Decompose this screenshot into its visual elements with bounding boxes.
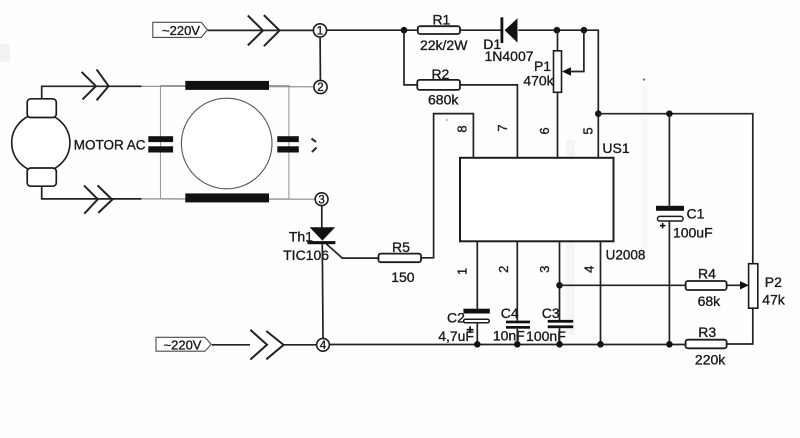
source flag ~220V bottom [156, 337, 211, 352]
potentiometer P1 470k [523, 30, 584, 92]
svg-text:R5: R5 [392, 239, 410, 255]
svg-text:47k: 47k [762, 291, 786, 307]
junction C3 rail [556, 341, 563, 348]
svg-text:2: 2 [317, 82, 323, 94]
svg-text:470k: 470k [523, 73, 554, 89]
svg-text:C1: C1 [687, 206, 705, 222]
connector chevrons motor bottom [84, 185, 112, 213]
junction C4 rail [514, 341, 521, 348]
junction pin 3 / R4 [556, 282, 563, 289]
capacitor C2 4,7uF electrolytic [438, 309, 490, 344]
svg-text:C2: C2 [447, 310, 465, 326]
wire pin3 to R4 [560, 284, 686, 286]
junction P1 wiper [581, 27, 588, 34]
wire pin 3 to C3 [559, 241, 561, 320]
pin 2 number [496, 266, 511, 273]
pin 8 number [455, 125, 470, 132]
wire node1 to R1 [326, 29, 417, 31]
svg-text:10nF: 10nF [493, 328, 525, 344]
small mark right of block [312, 139, 317, 153]
svg-text:5: 5 [580, 127, 595, 134]
resistor R2 680k [417, 66, 460, 108]
wire motor top [42, 86, 142, 99]
svg-text:4: 4 [320, 340, 327, 352]
pin 3 number [537, 266, 552, 273]
wire node1 to node2 [319, 37, 321, 81]
svg-text:MOTOR AC: MOTOR AC [74, 137, 146, 152]
svg-text:3: 3 [537, 266, 552, 273]
wire gate R5 to Th1 [326, 244, 379, 258]
wire C1 to rail [668, 221, 670, 344]
pin 5 number [580, 127, 595, 134]
wire P2 bottom to R3 [727, 308, 753, 344]
wire R2 to pin 7 [460, 85, 517, 158]
wire C2 to rail [476, 323, 478, 344]
scan streak artifact [0, 44, 648, 335]
svg-text:6: 6 [537, 127, 552, 134]
wire node3 to Th1 anode [321, 205, 323, 227]
wire D1 to corner, down to pin 5 [518, 30, 598, 158]
svg-text:P2: P2 [765, 274, 782, 290]
winding bar top [185, 81, 269, 90]
svg-text:~220V: ~220V [162, 23, 200, 38]
node 4 [317, 338, 330, 352]
pin 6 number [537, 127, 552, 134]
junction pin4 rail [597, 341, 604, 348]
winding bar bottom [185, 193, 269, 202]
thyristor Th1 TIC106 [283, 227, 335, 263]
resistor R5 150 [379, 239, 422, 285]
junction A (R2 branch) [401, 27, 408, 34]
svg-text:22k/2W: 22k/2W [420, 37, 468, 53]
svg-text:68k: 68k [698, 293, 722, 309]
svg-text:US1: US1 [602, 140, 629, 156]
wire R2 branch from junction A to pin 7 [404, 30, 417, 85]
speck noise [446, 78, 645, 121]
svg-text:150: 150 [391, 269, 415, 285]
source flag ~220V top [153, 22, 208, 38]
wire C3 to rail [559, 328, 561, 344]
wire rail to P2 top [598, 114, 753, 264]
svg-text:R2: R2 [431, 66, 449, 82]
capacitor C3 100nF [526, 305, 573, 344]
connector chevrons bottom-left [250, 330, 283, 360]
wire flag to chevron top [208, 29, 314, 31]
svg-text:U2008: U2008 [606, 248, 646, 263]
capacitor plates right [277, 136, 299, 152]
wire Th1 cathode to node 4 [321, 244, 324, 338]
svg-text:220k: 220k [695, 351, 726, 367]
wire pin 4 to rail [600, 241, 602, 344]
svg-text:100uF: 100uF [673, 225, 713, 241]
motor M1 MOTOR AC [12, 99, 146, 186]
svg-text:Th1: Th1 [289, 229, 313, 245]
pin 1 number [455, 268, 470, 275]
capacitor plates left [148, 136, 173, 152]
svg-text:R3: R3 [698, 324, 716, 340]
svg-text:2: 2 [496, 266, 511, 273]
svg-text:1N4007: 1N4007 [484, 48, 533, 64]
pin 7 number [495, 124, 510, 131]
svg-text:R1: R1 [432, 12, 450, 28]
regulator block outline [161, 86, 289, 199]
connector chevrons motor top [82, 69, 109, 100]
resistor R3 220k [686, 324, 727, 367]
wire R4 wiper arrow to P2 [727, 281, 749, 289]
junction C1 top rail [666, 110, 673, 117]
node 1 [313, 24, 326, 38]
node 2 [314, 80, 327, 94]
connector chevrons top-left [248, 15, 280, 46]
node 3 [315, 193, 328, 207]
wire pin 2 to C4 [516, 241, 518, 320]
resistor R4 68k [686, 266, 727, 310]
wire chevron to node 4 [284, 344, 317, 346]
wire pin 8 to R5 [421, 114, 473, 258]
svg-text:1: 1 [317, 26, 323, 38]
bottom rail wire [329, 344, 685, 346]
wire P1 bottom to pin 6 [557, 92, 559, 158]
diode D1 1N4007 [483, 17, 533, 64]
svg-text:4: 4 [581, 266, 596, 273]
wire block top to node 2 [142, 85, 315, 88]
junction P1 top [554, 27, 561, 34]
capacitor C1 100uF electrolytic [656, 206, 713, 241]
svg-text:680k: 680k [428, 92, 459, 108]
wire C1 branch [668, 114, 670, 206]
rotor circle [181, 98, 272, 189]
wire R1 to D1 [461, 29, 503, 31]
wire motor bottom [42, 186, 142, 199]
wire pin 1 to C2 [476, 241, 478, 308]
svg-text:R4: R4 [698, 266, 716, 282]
junction C2 rail [474, 341, 481, 348]
wire flag to chevron bottom [212, 344, 250, 346]
svg-text:3: 3 [318, 194, 324, 206]
svg-text:1: 1 [455, 268, 470, 275]
svg-text:C4: C4 [501, 305, 519, 321]
svg-text:4,7uF: 4,7uF [438, 328, 474, 344]
resistor R1 [418, 12, 468, 53]
svg-text:~220V: ~220V [164, 338, 202, 353]
junction pin5 rail [595, 110, 602, 117]
potentiometer P2 47k [749, 264, 786, 309]
capacitor C4 10nF [493, 305, 530, 344]
wire C4 to rail [516, 329, 518, 345]
svg-text:7: 7 [495, 124, 510, 131]
IC US1 U2008 [460, 140, 645, 263]
svg-text:8: 8 [455, 125, 470, 132]
pin 4 number [581, 266, 596, 273]
wire block bottom to node 3 [142, 198, 316, 200]
svg-text:C3: C3 [542, 305, 560, 321]
junction C1 rail [666, 341, 673, 348]
